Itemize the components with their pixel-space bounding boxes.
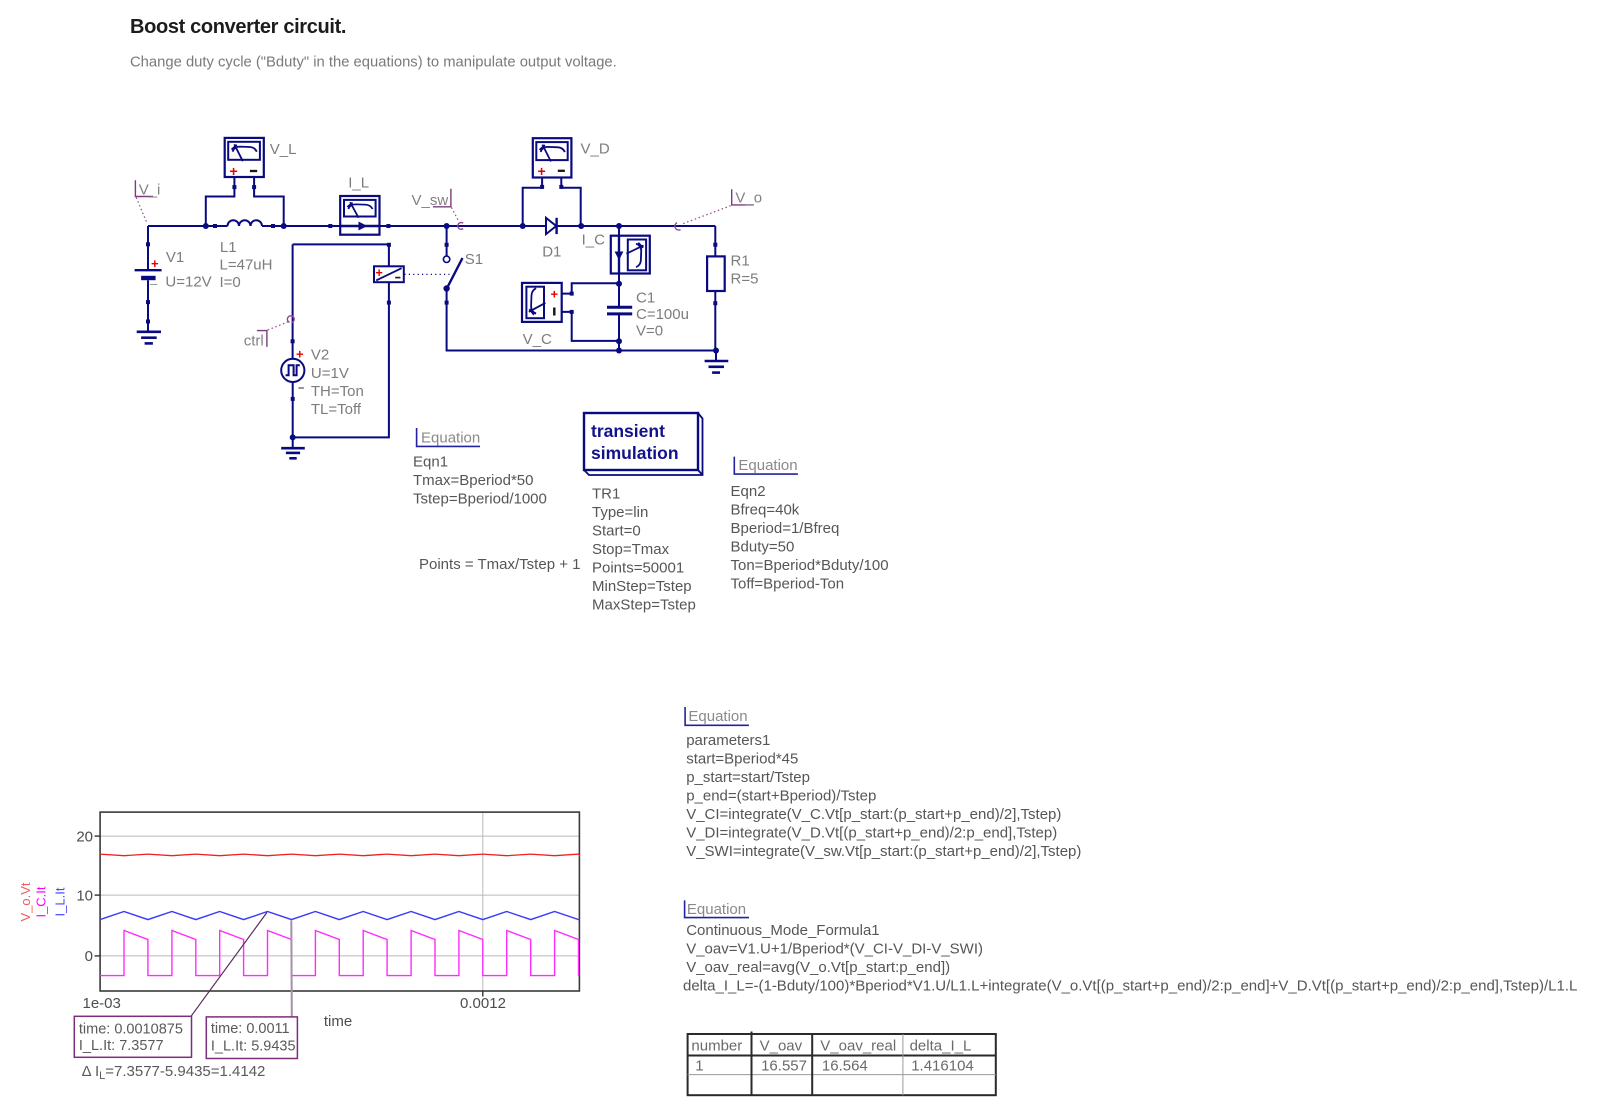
waveform plot [18,812,579,1082]
svg-text:Equation: Equation [421,430,480,447]
wire S1 lower lead to bottom rail [447,291,716,351]
svg-text:V_oav_real=avg(V_o.Vt[p_start:: V_oav_real=avg(V_o.Vt[p_start:p_end]) [686,959,950,976]
terminal [559,185,563,189]
plot axis ticks [95,836,483,996]
svg-text:+: + [538,163,546,179]
wire R1 branch [714,226,716,256]
I_C.It trace (magenta) [100,931,579,976]
resistor R1 [707,253,758,292]
svg-text:Boost converter circuit.: Boost converter circuit. [130,16,346,38]
svg-text:1e-03: 1e-03 [83,995,121,1012]
result table [688,1032,996,1096]
terminal [386,224,390,228]
node junction [713,348,719,354]
voltage source V1 [135,249,212,291]
svg-text:Bduty=50: Bduty=50 [731,539,795,556]
plot gridlines [100,835,579,837]
svg-text:Change duty cycle ("Bduty" in: Change duty cycle ("Bduty" in the equati… [130,55,617,71]
svg-text:Tmax=Bperiod*50: Tmax=Bperiod*50 [413,472,533,489]
pulse source V2 [281,347,364,419]
svg-text:16.557: 16.557 [761,1058,807,1075]
terminal [570,292,574,296]
terminal [713,301,717,305]
terminal [291,397,295,401]
terminal [213,224,217,228]
svg-text:Toff=Bperiod-Ton: Toff=Bperiod-Ton [731,576,845,593]
capacitor C1 [607,289,689,339]
svg-text:TL=Toff: TL=Toff [311,401,362,418]
wire V_L right tap [254,177,284,226]
svg-text:simulation: simulation [591,443,679,463]
terminal [540,185,544,189]
svg-text:20: 20 [76,828,93,845]
voltmeter V_C [522,283,562,348]
svg-text:p_end=(start+Bperiod)/Tstep: p_end=(start+Bperiod)/Tstep [686,788,876,805]
svg-text:+: + [551,287,559,302]
node label ctrl [244,316,294,350]
marker leader 1 [191,913,267,1017]
wire V_L left tap [206,177,235,226]
svg-text:time: time [324,1013,352,1030]
node junction [290,434,296,440]
svg-text:V2: V2 [311,347,329,364]
svg-text:TH=Ton: TH=Ton [311,383,364,400]
svg-text:time: 0.0011: time: 0.0011 [211,1021,290,1037]
terminal [570,310,574,314]
svg-text:Points = Tmax/Tstep + 1: Points = Tmax/Tstep + 1 [419,556,580,573]
relay control dotted link [404,273,449,275]
wire R1 ground stem [715,351,717,361]
relay coil S1 [374,266,449,282]
marker callout 2 [206,1017,297,1059]
node junction [616,338,622,344]
svg-text:U=12V: U=12V [165,274,211,291]
svg-text:+: + [230,163,238,179]
svg-text:Type=lin: Type=lin [592,504,648,521]
terminal [387,301,391,305]
wire main bus left (V_i node to L1) [148,225,228,227]
svg-text:V_o.Vt: V_o.Vt [18,882,33,921]
svg-text:Start=0: Start=0 [592,523,641,540]
svg-text:Equation: Equation [687,901,746,918]
ammeter I_L [340,175,379,235]
svg-text:S1: S1 [465,251,483,268]
wire V_D right tap [561,178,580,227]
terminal [291,339,295,343]
svg-text:MaxStep=Tstep: MaxStep=Tstep [592,597,696,614]
svg-text:delta_I_L: delta_I_L [910,1037,972,1054]
node label V_sw [412,189,464,230]
svg-text:V_D: V_D [581,141,610,158]
terminal [232,185,236,189]
node junction [616,348,622,354]
svg-text:start=Bperiod*45: start=Bperiod*45 [686,751,798,768]
svg-text:V_oav=V1.U+1/Bperiod*(V_CI-V_D: V_oav=V1.U+1/Bperiod*(V_CI-V_DI-V_SWI) [686,940,983,957]
svg-text:R=5: R=5 [731,271,759,288]
wire D1 cathode to output corner [557,225,715,227]
svg-text:D1: D1 [542,244,561,261]
marker leader 2 [290,921,293,1017]
wire relay coil bottom to V2 bottom loop [293,282,389,437]
svg-text:Ton=Bperiod*Bduty/100: Ton=Bperiod*Bduty/100 [731,557,889,574]
terminal [445,301,449,305]
svg-text:R1: R1 [731,253,750,270]
terminal [387,243,391,247]
ground (V2) [281,437,305,458]
svg-text:L1: L1 [220,239,237,256]
svg-text:V_CI=integrate(V_C.Vt[p_start:: V_CI=integrate(V_C.Vt[p_start:(p_start+p… [686,806,1061,823]
svg-text:–: – [150,276,158,291]
terminal [328,224,332,228]
wire V_C minus tap [562,312,619,341]
svg-text:V_DI=integrate(V_D.Vt[(p_start: V_DI=integrate(V_D.Vt[(p_start+p_end)/2:… [686,825,1057,842]
voltmeter V_D [533,138,610,179]
svg-text:I_L.It: 7.3577: I_L.It: 7.3577 [79,1038,164,1054]
svg-text:1: 1 [695,1058,703,1075]
terminal [146,300,150,304]
svg-text:Δ IL=7.3577-5.9435=1.4142: Δ IL=7.3577-5.9435=1.4142 [82,1063,266,1082]
terminal [445,243,449,247]
svg-text:parameters1: parameters1 [686,732,770,749]
marker callout 1 [74,1016,191,1057]
wire I_C branch down to capacitor [618,226,620,306]
plot frame [100,812,579,991]
node junction [520,223,526,229]
svg-text:V=0: V=0 [636,322,663,339]
equation block Eqn1 [413,428,580,573]
svg-text:0: 0 [85,948,93,965]
V_o.Vt trace (red) [100,854,579,856]
svg-text:MinStep=Tstep: MinStep=Tstep [592,578,692,595]
terminal [713,243,717,247]
wire V2 bottom lead [292,381,294,437]
svg-text:number: number [691,1037,742,1054]
voltmeter V_L [225,138,297,179]
terminal [146,242,150,246]
svg-text:I_C: I_C [582,232,606,249]
svg-text:V_i: V_i [139,182,161,199]
svg-text:I_C.It: I_C.It [34,886,49,917]
wire V1 branch [147,226,149,269]
svg-text:V_oav: V_oav [760,1037,803,1054]
transient simulation TR1 [584,413,703,614]
svg-text:V_C: V_C [523,331,552,348]
svg-text:Bfreq=40k: Bfreq=40k [731,502,800,519]
svg-text:Bperiod=1/Bfreq: Bperiod=1/Bfreq [731,520,840,537]
svg-text:Equation: Equation [738,457,797,474]
svg-text:V_SWI=integrate(V_sw.Vt[p_star: V_SWI=integrate(V_sw.Vt[p_start:(p_start… [686,843,1081,860]
ground (V1) [137,332,161,344]
svg-text:Eqn1: Eqn1 [413,454,448,471]
svg-text:TR1: TR1 [592,486,620,503]
svg-text:I_L.It: I_L.It [53,887,68,916]
svg-text:C1: C1 [636,289,655,306]
node junction [616,223,622,229]
svg-text:time: 0.0010875: time: 0.0010875 [79,1021,183,1037]
svg-text:Stop=Tmax: Stop=Tmax [592,541,670,558]
ground (R1) [705,361,729,373]
svg-text:16.564: 16.564 [822,1058,868,1075]
svg-text:+: + [296,347,304,362]
svg-text:Equation: Equation [688,708,747,725]
diode D1 [542,218,561,261]
node junction [281,223,287,229]
terminal [146,320,150,324]
svg-text:L=47uH: L=47uH [220,257,273,274]
node junction [444,223,450,229]
svg-text:V1: V1 [166,249,184,266]
svg-text:10: 10 [76,887,93,904]
wire V_C plus tap [562,283,619,293]
equation block Eqn2 [731,457,889,593]
node junction [616,281,622,287]
wire ctrl node: V2 top to relay coil [293,244,389,266]
svg-text:delta_I_L=-(1-Bduty/100)*Bperi: delta_I_L=-(1-Bduty/100)*Bperiod*V1.U/L1… [683,977,1577,994]
equation block Continuous_Mode_Formula1 [683,900,1577,994]
svg-text:U=1V: U=1V [311,365,349,382]
node label V_o [675,189,762,230]
svg-text:V_oav_real: V_oav_real [820,1037,896,1054]
switch S1 contact [443,251,483,292]
svg-text:Points=50001: Points=50001 [592,560,684,577]
svg-text:0.0012: 0.0012 [460,995,506,1012]
node junction [578,223,584,229]
svg-text:Eqn2: Eqn2 [731,483,766,500]
inductor L1 [220,220,273,291]
svg-text:V_sw: V_sw [412,192,449,209]
I_L.It trace (blue) [100,912,579,920]
wire L1 to I_L to S1 node to D1 [262,225,546,227]
svg-text:C=100u: C=100u [636,306,689,323]
svg-text:ctrl: ctrl [244,333,264,350]
svg-text:transient: transient [591,421,665,441]
equation block parameters1 [685,707,1081,860]
wire V_D left tap [523,178,542,227]
svg-text:p_start=start/Tstep: p_start=start/Tstep [686,769,810,786]
node junction [203,223,209,229]
terminal [252,185,256,189]
node label V_i [135,180,160,223]
ammeter I_C [582,232,650,274]
svg-text:I_L.It: 5.9435: I_L.It: 5.9435 [211,1039,296,1055]
terminal [271,224,275,228]
wire S1 upper lead [446,226,448,257]
svg-text:+: + [376,266,383,280]
svg-text:V_o: V_o [735,190,762,207]
svg-text:+: + [151,256,159,271]
svg-text:Tstep=Bperiod/1000: Tstep=Bperiod/1000 [413,491,547,508]
svg-text:V_L: V_L [270,141,297,158]
svg-text:I_L: I_L [348,175,369,192]
svg-text:I=0: I=0 [220,274,241,291]
svg-text:Continuous_Mode_Formula1: Continuous_Mode_Formula1 [686,922,879,939]
svg-text:1.416104: 1.416104 [911,1058,974,1075]
